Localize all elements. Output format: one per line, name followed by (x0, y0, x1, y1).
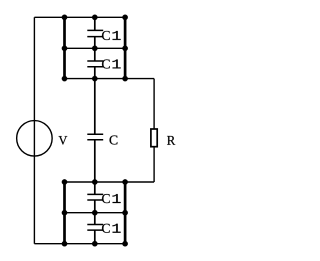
resistor R (151, 79, 175, 182)
wire lower-left thick vertical (63, 182, 66, 244)
wire top rail (34, 16, 126, 18)
node upper bottom rail mid (92, 76, 97, 81)
node upper bottom rail right (122, 76, 127, 81)
wire bottom rail (34, 243, 126, 245)
node upper bottom rail left (62, 76, 67, 81)
wire left outer vertical (33, 17, 35, 243)
node lower top rail right (122, 179, 127, 184)
node upper mid rail left (62, 46, 67, 51)
node lower mid rail left (62, 210, 67, 215)
node lower top rail mid (92, 179, 97, 184)
node bottom rail right (122, 241, 127, 246)
wire upper-left thick vertical (63, 17, 66, 78)
node bottom rail mid (92, 241, 97, 246)
capacitor C (middle) (87, 79, 117, 182)
wire upper mid rail (65, 47, 127, 49)
node lower mid rail mid (92, 210, 97, 215)
node top rail left (62, 15, 67, 20)
node lower top rail left (62, 179, 67, 184)
node top rail right (122, 15, 127, 20)
capacitor C1 (top first) (87, 17, 120, 48)
node top rail mid (92, 15, 97, 20)
capacitor C1 (top second) (87, 48, 120, 78)
capacitor C1 (bottom first) (87, 182, 120, 213)
wire lower top rail (65, 181, 155, 183)
wire upper bottom rail (65, 78, 155, 80)
node upper mid rail right (122, 46, 127, 51)
wire lower-right thick vertical (124, 182, 127, 244)
voltage source V (17, 121, 68, 157)
node bottom rail left (62, 241, 67, 246)
capacitor C1 (bottom second) (87, 213, 120, 244)
node lower mid rail right (122, 210, 127, 215)
node upper mid rail mid (92, 46, 97, 51)
wire lower mid rail (65, 212, 127, 214)
wire upper-right thick vertical (124, 17, 127, 78)
